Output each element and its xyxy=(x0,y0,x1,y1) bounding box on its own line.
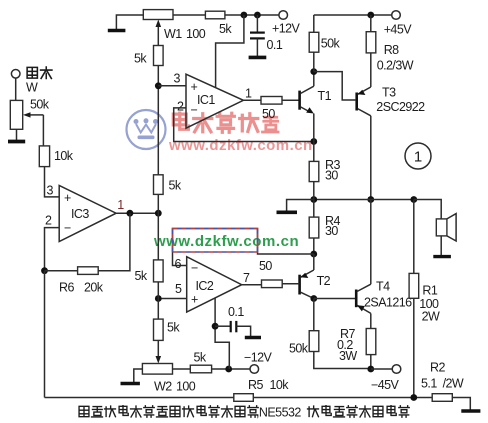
svg-text:1: 1 xyxy=(117,198,124,212)
node output row T3 xyxy=(367,196,374,203)
wire IC2 pin6 feedback path xyxy=(173,229,314,266)
svg-text:5: 5 xyxy=(175,282,182,296)
wire W1 to 5k xyxy=(173,14,205,16)
node circled 1 xyxy=(405,143,431,169)
node R6 feedback tap xyxy=(126,210,133,217)
svg-text:5k: 5k xyxy=(219,22,232,36)
resistor 50 (IC2 out) xyxy=(262,280,283,288)
node -12V junction xyxy=(225,366,232,373)
ground cap IC2 xyxy=(245,336,261,339)
wire 5k to -12V xyxy=(212,368,251,370)
resistor 5k (vertical, W1 wiper) xyxy=(154,46,164,66)
svg-text:50: 50 xyxy=(262,107,275,121)
svg-text:R5: R5 xyxy=(248,378,263,392)
svg-text:6: 6 xyxy=(175,257,182,271)
resistor R7 0.2 3W xyxy=(370,313,372,328)
resistor 50 (IC1 out) xyxy=(261,97,282,105)
node T1 collector xyxy=(310,68,317,75)
resistor R3 30 xyxy=(313,142,315,162)
resistor 50k (upper) xyxy=(313,15,315,32)
bottom rail xyxy=(45,397,234,399)
svg-text:20k: 20k xyxy=(84,281,104,295)
svg-text:R1: R1 xyxy=(422,284,437,298)
wire output column R1 xyxy=(413,200,415,274)
transistor T4 2SA1216 xyxy=(356,280,412,314)
wire 50 to T2 base xyxy=(282,283,299,285)
svg-text:+: + xyxy=(64,191,71,205)
svg-text:7: 7 xyxy=(243,271,250,285)
svg-text:−12V: −12V xyxy=(244,351,273,365)
node IC1 pin3 xyxy=(155,82,162,89)
svg-text:,NE5532: ,NE5532 xyxy=(256,406,301,420)
svg-text:T1: T1 xyxy=(318,89,332,103)
ground W2 left xyxy=(134,369,143,382)
node +12V rail b xyxy=(254,12,261,19)
wire rail A to W2 wiper arrow xyxy=(157,340,159,359)
node pin2/R6 junction xyxy=(41,267,48,274)
svg-text:1: 1 xyxy=(414,149,422,166)
resistor R6 20k xyxy=(45,270,78,272)
speaker xyxy=(433,214,456,259)
wire mid output row xyxy=(314,199,414,201)
wire IC1 pin3 xyxy=(158,85,186,87)
svg-text:W1: W1 xyxy=(164,27,182,41)
svg-text:100: 100 xyxy=(186,27,206,41)
wire T4 base row xyxy=(314,298,356,300)
ground for 0.1 cap xyxy=(249,56,267,60)
wire R5 to R2 xyxy=(253,397,432,399)
svg-text:50k: 50k xyxy=(30,98,50,112)
wire input to pot W xyxy=(15,78,17,100)
label 输入 xyxy=(27,67,52,78)
resistor 10k xyxy=(39,146,49,167)
node feedback tap R3 xyxy=(310,138,317,145)
svg-text:−: − xyxy=(64,221,71,235)
node +12V rail a xyxy=(241,12,248,19)
transistor T3 2SC2922 xyxy=(357,86,425,116)
svg-text:2: 2 xyxy=(177,100,184,114)
svg-text:www.dzkfw.com.cn: www.dzkfw.com.cn xyxy=(153,233,299,250)
wire W2 to 5k xyxy=(173,368,191,370)
svg-text:50k: 50k xyxy=(289,342,309,356)
svg-text:10k: 10k xyxy=(54,149,74,163)
wire IC1 power pin from +12V xyxy=(216,15,244,88)
svg-text:10k: 10k xyxy=(270,378,290,392)
watermark red text 电子开发网 xyxy=(173,113,278,132)
wire T4 collector riser xyxy=(370,200,372,285)
svg-text:5k: 5k xyxy=(169,179,182,193)
svg-text:IC1: IC1 xyxy=(197,93,215,107)
wire R2 to ground xyxy=(452,398,470,410)
svg-text:www.dzkfw.com.cn: www.dzkfw.com.cn xyxy=(168,137,313,154)
terminal -45V xyxy=(371,368,392,370)
svg-text:R6: R6 xyxy=(59,281,74,295)
svg-text:IC2: IC2 xyxy=(196,279,214,293)
svg-text:+45V: +45V xyxy=(384,23,413,37)
svg-text:2: 2 xyxy=(45,214,52,228)
potentiometer W2 100 xyxy=(142,364,172,375)
svg-text:R2: R2 xyxy=(430,361,445,375)
node R4/feedback tap xyxy=(310,251,317,258)
svg-text:IC3: IC3 xyxy=(71,207,89,221)
caption 用运放驱动简单实用功率放大器,NE5532驱动功率放大电路 xyxy=(79,406,258,418)
svg-text:5k: 5k xyxy=(135,269,148,283)
svg-text:2W: 2W xyxy=(422,310,440,324)
resistor R1 100 2W xyxy=(409,273,419,298)
svg-text:100: 100 xyxy=(176,380,196,394)
svg-text:W2: W2 xyxy=(154,380,172,394)
watermark logo circle (light blue W emblem) xyxy=(127,110,166,149)
wire +45V rail xyxy=(314,14,392,16)
wire IC2 pin5 from rail xyxy=(158,298,186,300)
node R3/R4 mid xyxy=(310,196,317,203)
svg-text:3: 3 xyxy=(174,72,181,86)
potentiometer W1 100 xyxy=(143,10,173,20)
node T2/T4 base row xyxy=(310,295,317,302)
terminal +12V xyxy=(279,11,288,20)
svg-text:0.2/3W: 0.2/3W xyxy=(377,59,414,73)
wire left column to bottom rail xyxy=(44,271,46,398)
resistor 50k (lower) xyxy=(309,331,319,352)
svg-text:T2: T2 xyxy=(317,274,331,288)
op-amp IC2 xyxy=(187,257,242,312)
resistor R4 30 xyxy=(313,200,315,218)
svg-text:5k: 5k xyxy=(167,321,180,335)
wire rail A lower xyxy=(157,282,159,319)
svg-text:2SC2922: 2SC2922 xyxy=(376,100,425,114)
terminal -12V xyxy=(250,365,259,374)
node -45V junction xyxy=(367,366,374,373)
svg-text:0.1: 0.1 xyxy=(228,305,244,319)
resistor R5 10k xyxy=(234,394,254,402)
wire speaker branch xyxy=(414,200,441,219)
node rail pin5 xyxy=(155,295,162,302)
potentiometer W 50k xyxy=(10,100,22,129)
node R8 tap xyxy=(367,12,374,19)
wire rail A upper xyxy=(157,66,159,175)
node bottom output xyxy=(410,394,417,401)
wire T2 emitter from R4 node xyxy=(313,254,315,270)
ground under pot W xyxy=(16,129,18,140)
wire 50 to T1 base xyxy=(282,99,300,101)
wire wiper riser xyxy=(42,115,44,146)
svg-text:W: W xyxy=(26,81,38,95)
op-amp IC3 xyxy=(59,186,116,242)
wire IC3 output xyxy=(116,212,158,214)
wire T3 bottom drop xyxy=(370,116,372,200)
node IC2 power/cap xyxy=(212,323,219,330)
wire 10k to IC3 pin3 xyxy=(45,167,60,197)
wire IC2 out xyxy=(242,284,262,286)
wire T3 base path xyxy=(314,72,356,100)
svg-text:+: + xyxy=(191,80,198,94)
transistor T1 xyxy=(300,86,332,113)
svg-text:+12V: +12V xyxy=(272,22,301,36)
rail A middle segments xyxy=(157,194,159,260)
svg-text:−: − xyxy=(191,261,198,275)
terminal +45V xyxy=(392,11,401,20)
svg-text:5.1 /2W: 5.1 /2W xyxy=(421,377,464,391)
ground mid row xyxy=(287,200,314,212)
op-amp IC1 xyxy=(186,74,243,128)
resistor 5k (horizontal lower) xyxy=(190,365,211,373)
resistor 5k (rail v4) xyxy=(154,319,164,340)
wire T1 collector riser xyxy=(313,72,315,87)
wire IC3 pin2 down xyxy=(45,228,60,271)
resistor 5k (rail v2) xyxy=(154,175,164,195)
svg-text:−45V: −45V xyxy=(371,378,400,392)
svg-text:30: 30 xyxy=(325,169,338,183)
svg-text:50k: 50k xyxy=(321,37,341,51)
svg-text:2SA1216: 2SA1216 xyxy=(364,296,412,310)
wire T1 emitter drop xyxy=(313,114,315,142)
ground top-left (W1 left) xyxy=(116,15,143,30)
wire IC1 out xyxy=(243,99,261,101)
node IC3 out to rail xyxy=(155,210,162,217)
svg-text:1: 1 xyxy=(245,87,252,101)
wire 5k to +12V xyxy=(225,14,279,16)
svg-text:3: 3 xyxy=(47,184,54,198)
resistor R2 5.1/2W xyxy=(432,394,452,402)
capacitor 0.1 (IC1 supply) xyxy=(256,15,258,33)
svg-text:R8: R8 xyxy=(384,43,399,57)
wire IC2 power pin to -12V xyxy=(215,298,229,369)
capacitor 0.1 (IC2 supply) xyxy=(215,325,231,327)
svg-text:5k: 5k xyxy=(134,52,147,66)
resistor 5k (rail v3) xyxy=(154,260,164,282)
wire T2 down to 50k xyxy=(313,299,315,331)
svg-text:50: 50 xyxy=(259,259,272,273)
wire IC1 pin2 feedback xyxy=(174,108,314,142)
node output column xyxy=(410,196,417,203)
wire 50k to -45V row xyxy=(314,352,371,369)
svg-text:3W: 3W xyxy=(339,349,357,363)
watermark dashed box xyxy=(173,229,258,253)
svg-text:5k: 5k xyxy=(194,351,207,365)
resistor 5k (top horizontal) xyxy=(205,11,225,19)
svg-text:30: 30 xyxy=(325,224,338,238)
svg-text:+: + xyxy=(191,293,198,307)
wire R6 to output riser xyxy=(98,213,130,271)
svg-text:0.1: 0.1 xyxy=(267,38,283,52)
svg-text:T3: T3 xyxy=(382,86,396,100)
svg-text:T4: T4 xyxy=(376,280,390,294)
resistor R8 0.2/3W xyxy=(370,15,372,32)
transistor T2 xyxy=(300,270,331,299)
input terminal xyxy=(11,70,20,79)
